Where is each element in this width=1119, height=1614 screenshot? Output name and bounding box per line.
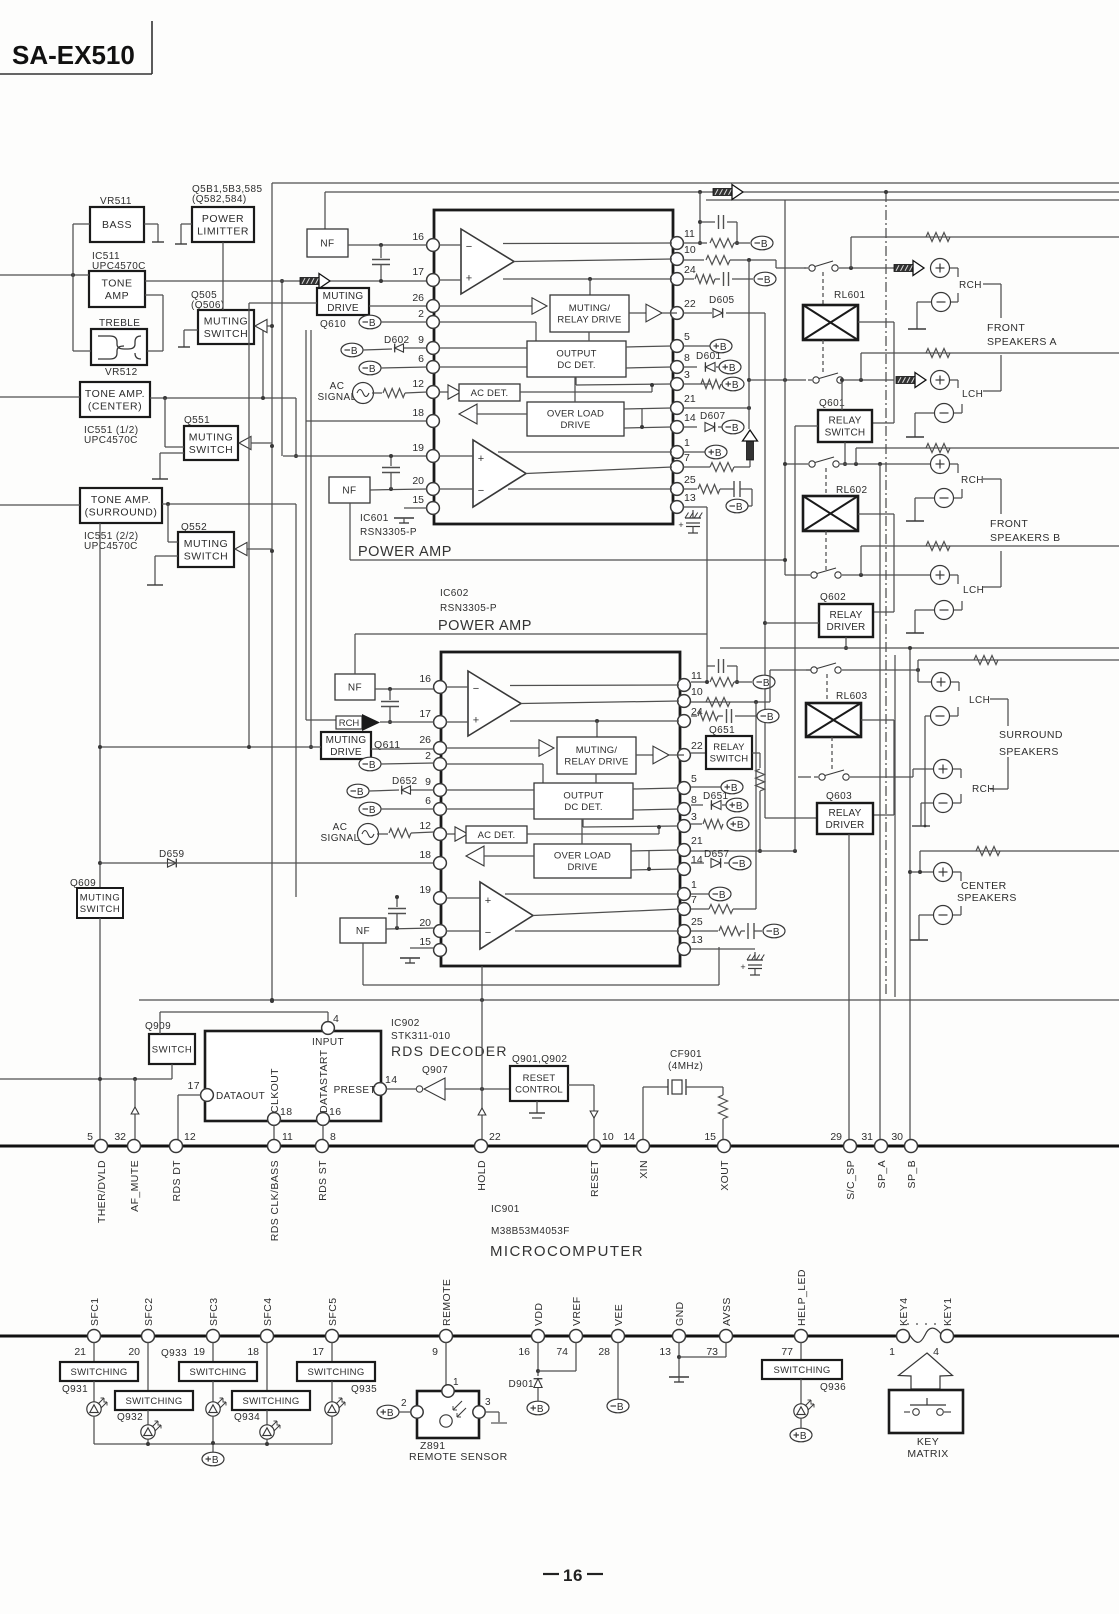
overload drive block [527, 402, 624, 436]
cap pin25 [733, 481, 735, 497]
wire led +B [212, 1443, 214, 1452]
rail 749 [748, 260, 750, 429]
wire pin24 602 [691, 715, 697, 717]
svg-text:SWITCH: SWITCH [710, 754, 749, 765]
triangle mute out [653, 746, 669, 764]
pin 24 IC602 [678, 715, 691, 728]
svg-text:8: 8 [691, 794, 697, 806]
svg-text:26: 26 [419, 734, 431, 746]
pin 21 IC602 [678, 844, 691, 857]
wire SFC2 drop [147, 1342, 149, 1391]
pin 16 IC602 [434, 681, 447, 694]
wire sw4 out [846, 574, 931, 576]
svg-text:8: 8 [684, 352, 690, 364]
wire Q602 stem [845, 637, 847, 648]
svg-text:NF: NF [320, 239, 334, 250]
pot VR512 TREBLE [91, 329, 147, 365]
wire dcdet out5 [633, 788, 678, 789]
wire ovl out21 [631, 850, 678, 851]
svg-text:M38B53M4053F: M38B53M4053F [491, 1226, 570, 1237]
svg-text:MATRIX: MATRIX [907, 1448, 948, 1460]
svg-text:SP_B: SP_B [906, 1160, 918, 1188]
wire limiter to Q505 [222, 242, 224, 310]
diode D602 [395, 344, 404, 352]
diode D607 [705, 423, 715, 432]
svg-text:15: 15 [419, 936, 431, 948]
svg-text:Q931: Q931 [62, 1384, 88, 1395]
svg-text:14: 14 [623, 1131, 635, 1143]
wire pin19 feed [283, 455, 434, 457]
wire pin20 in [446, 930, 480, 932]
svg-text:LCH: LCH [969, 695, 990, 706]
svg-text:CENTER: CENTER [961, 880, 1007, 892]
wire ovl link [574, 377, 576, 402]
svg-text:GND: GND [674, 1301, 686, 1326]
svg-text:12: 12 [419, 820, 431, 832]
svg-text:16: 16 [563, 1566, 583, 1585]
svg-text:POWER: POWER [202, 213, 244, 225]
node RDS ST pin 8 [316, 1140, 329, 1153]
wire opamp A to pin11 [510, 684, 679, 687]
wire opamp B to pin25 [515, 930, 679, 932]
svg-text:7: 7 [691, 894, 697, 906]
diode D657 [711, 859, 721, 868]
nf block IC602 top [335, 674, 375, 700]
pin 1 IC601 [671, 446, 684, 459]
wire D605 out [726, 312, 765, 314]
svg-text:+: + [678, 520, 683, 530]
wire Q552 gnd [155, 555, 178, 557]
bracket surround [990, 698, 1008, 700]
rail 306 to RCH tag [305, 330, 307, 714]
svg-text:SA-EX510: SA-EX510 [12, 40, 135, 70]
speaker - RCH A [932, 293, 951, 312]
svg-text:AC DET.: AC DET. [478, 830, 516, 841]
wire pin16 in [446, 686, 468, 688]
svg-text:SP_A: SP_A [876, 1160, 888, 1188]
svg-text:14: 14 [691, 854, 703, 866]
resistor LCH S [974, 656, 998, 665]
switch S1 [804, 267, 808, 269]
crystal CF901 [667, 1079, 669, 1095]
svg-text:15: 15 [704, 1131, 716, 1143]
wire NF to pin16 [348, 244, 427, 246]
wire opamp B to pin25 [508, 488, 672, 490]
pin 20 IC602 [434, 925, 447, 938]
svg-text:SWITCH: SWITCH [189, 444, 233, 456]
resistor pin24 [695, 275, 715, 284]
svg-text:Q651: Q651 [709, 725, 735, 736]
wire Q909 bottom [171, 1064, 173, 1079]
wire spkA LCH resistor line [860, 353, 862, 380]
svg-text:SIGNAL: SIGNAL [317, 392, 356, 403]
svg-text:Q935: Q935 [351, 1384, 377, 1395]
relay switch Q601 [818, 410, 872, 442]
wire pin3 602 [691, 823, 702, 825]
wire RL602 coil [858, 513, 894, 515]
wire pin6 in [439, 366, 527, 368]
resistor pin3 602 [703, 820, 723, 829]
node AVSS pin 73 [720, 1330, 733, 1343]
wire pin10 602 [691, 701, 770, 703]
wire pin16 in [439, 244, 461, 246]
resistor pin10 [706, 256, 730, 265]
svg-text:AF_MUTE: AF_MUTE [129, 1160, 141, 1212]
svg-text:RELAY DRIVE: RELAY DRIVE [557, 315, 621, 326]
wire GND [678, 1342, 680, 1377]
wire led common [93, 1416, 95, 1444]
output dc det block [527, 341, 626, 377]
relay RL602 [803, 496, 858, 531]
svg-text:D651: D651 [703, 791, 729, 802]
wire pin7 602 [691, 908, 709, 910]
dashed RL603-S6 [831, 737, 833, 771]
wire dcdet out5 [626, 346, 671, 347]
wire Q611 in [100, 746, 321, 748]
wire pin17 in [446, 721, 468, 723]
pin 8 IC601 [671, 361, 684, 374]
svg-text:10: 10 [602, 1131, 614, 1143]
svg-text:DRIVER: DRIVER [827, 622, 866, 633]
svg-text:5: 5 [684, 331, 690, 343]
wire bass branch [72, 224, 74, 351]
cap branch pin11 602 [707, 665, 715, 667]
resistor pin11 602 [710, 678, 734, 687]
svg-text:RDS DT: RDS DT [171, 1160, 183, 1202]
wire RL603 coil [861, 719, 894, 721]
wire pin24 [683, 278, 694, 280]
wire center to Q551 [164, 398, 166, 447]
svg-text:6: 6 [418, 353, 424, 365]
svg-text:+: + [473, 714, 479, 726]
wire RCH B term [950, 463, 958, 465]
dashed S1-RL601 [822, 272, 824, 305]
switching Q933 [179, 1362, 257, 1381]
svg-text:22: 22 [489, 1131, 501, 1143]
output dc det block [534, 783, 633, 819]
svg-text:INPUT: INPUT [312, 1037, 344, 1048]
pin 5 IC601 [671, 340, 684, 353]
svg-text:CF901: CF901 [670, 1049, 702, 1060]
wire NF to pin20 [370, 489, 427, 490]
wire NF602 top line [355, 633, 707, 635]
wire dcdet link [595, 774, 597, 783]
node REMOTE pin 9 [440, 1330, 453, 1343]
wire opamp A to pin24 [503, 278, 672, 280]
svg-text:NF: NF [342, 486, 356, 497]
oval -B pin14 IC601 [722, 420, 744, 434]
wire Q651 out [752, 752, 760, 754]
svg-text:17: 17 [188, 1080, 200, 1092]
svg-text:MUTING: MUTING [323, 291, 364, 302]
wire tone amp to pin17 [145, 280, 427, 282]
wire AVSS [725, 1342, 727, 1357]
gnd surround [912, 825, 930, 827]
pin 7 IC602 [678, 903, 691, 916]
svg-text:(4MHz): (4MHz) [668, 1061, 703, 1072]
diode D601 [705, 363, 715, 372]
switch S5 [806, 669, 810, 671]
reset control [510, 1066, 568, 1101]
svg-text:17: 17 [412, 266, 424, 278]
svg-text:B: B [773, 927, 780, 938]
svg-text:VREF: VREF [571, 1296, 583, 1326]
wire section divider [139, 999, 1119, 1001]
svg-text:19: 19 [419, 884, 431, 896]
wire dcdet out8 [633, 809, 678, 810]
wire NF602 bottom stem [362, 943, 364, 985]
pin 6 IC601 [427, 361, 440, 374]
led D935 [331, 1381, 333, 1402]
wire top bus B [325, 191, 1119, 193]
svg-text:16: 16 [419, 673, 431, 685]
svg-text:DRIVE: DRIVE [567, 862, 597, 873]
svg-text:3: 3 [684, 369, 690, 381]
svg-text:B: B [357, 787, 364, 798]
speaker - LCH S [931, 707, 950, 726]
resistor pin10 602 [706, 698, 730, 707]
wire SFC5 drop [331, 1342, 333, 1362]
svg-text:1: 1 [691, 879, 697, 891]
pin 1 IC602 [678, 888, 691, 901]
svg-text:22: 22 [684, 298, 696, 310]
muting drive Q611 [321, 732, 371, 759]
svg-text:14: 14 [385, 1074, 397, 1086]
wire Z891 gnd [485, 1411, 499, 1413]
svg-text:12: 12 [184, 1131, 196, 1143]
pin 25 IC602 [678, 925, 691, 938]
svg-text:15: 15 [412, 494, 424, 506]
dashed S3-RL602 [825, 468, 827, 496]
svg-text:B: B [763, 678, 770, 689]
wire opamp B to pin7 [533, 909, 679, 916]
switch S3 [804, 463, 808, 465]
wire center out [150, 397, 296, 399]
svg-text:LCH: LCH [962, 389, 983, 400]
wire opamp B to pin1 [498, 451, 672, 453]
diode D901 [534, 1379, 542, 1388]
wire CLKOUT [273, 1125, 275, 1146]
wire Q505 mute tie [254, 326, 256, 329]
svg-text:D652: D652 [392, 776, 418, 787]
wire center input [0, 396, 80, 398]
rail x895 [894, 655, 896, 997]
wire top bus A [272, 182, 1119, 184]
svg-text:18: 18 [419, 849, 431, 861]
muting relay drive block [550, 295, 629, 332]
svg-text:THER/DVLD: THER/DVLD [96, 1160, 108, 1223]
wavy bridge KEY4-KEY1 [909, 1328, 941, 1342]
svg-text:Q601: Q601 [819, 398, 845, 409]
svg-text:NF: NF [348, 683, 362, 694]
diode D605 [713, 309, 723, 318]
svg-text:Q551: Q551 [184, 415, 210, 426]
wire pin10 jog [775, 260, 777, 268]
speaker + RCH A [931, 259, 950, 278]
pin 10 IC601 [671, 253, 684, 266]
svg-text:SWITCHING: SWITCHING [125, 1396, 182, 1407]
node THER/DVLD pin 5 [95, 1140, 108, 1153]
node SFC4 pin 18 [261, 1330, 274, 1343]
pin 2 IC602 [434, 758, 447, 771]
wire Q551 mute tie [251, 442, 272, 444]
wire sw4 feed [785, 574, 806, 576]
svg-text:B: B [212, 1455, 219, 1466]
wire ac 602 [377, 833, 388, 835]
svg-text:(Q582,584): (Q582,584) [192, 194, 247, 205]
dashed RL601-S2 [822, 340, 824, 374]
wire NF602 feedback [363, 984, 719, 986]
svg-text:RL602: RL602 [836, 485, 868, 496]
wire Q601 stem [844, 442, 846, 464]
wire led936 [800, 1418, 802, 1428]
speaker + RCH B [931, 455, 950, 474]
oval +B pin8 IC602 [726, 798, 748, 812]
pin 18 CLKOUT [268, 1113, 281, 1126]
pin 3 Z891 [473, 1406, 485, 1418]
svg-text:−: − [478, 485, 484, 497]
svg-text:Q934: Q934 [234, 1412, 260, 1423]
pin 5 IC602 [678, 782, 691, 795]
rail 311 [310, 330, 312, 747]
svg-text:POWER AMP: POWER AMP [438, 618, 532, 634]
svg-text:5: 5 [87, 1131, 93, 1143]
svg-text:XOUT: XOUT [719, 1160, 731, 1191]
svg-text:13: 13 [684, 492, 696, 504]
svg-text:NF: NF [356, 926, 370, 937]
wire bass out [144, 223, 158, 225]
oval -B pin24 IC601 [754, 272, 776, 286]
wire NF601 bottom stem [349, 503, 351, 560]
wire pin26 in [439, 305, 532, 307]
svg-text:RSN3305-P: RSN3305-P [360, 527, 417, 538]
wire sw6 left stub [798, 776, 811, 778]
svg-text:17: 17 [419, 708, 431, 720]
pin 10 IC602 [678, 695, 691, 708]
wire pin21 [683, 407, 749, 409]
diode D651 [711, 801, 721, 810]
svg-text:20: 20 [128, 1346, 140, 1358]
pin 25 IC601 [671, 483, 684, 496]
node SP_B pin 30 [905, 1140, 918, 1153]
svg-text:21: 21 [74, 1346, 86, 1358]
svg-text:19: 19 [412, 442, 424, 454]
oval -B pin9 IC602 [347, 784, 369, 798]
svg-text:SFC2: SFC2 [143, 1298, 155, 1326]
cap pin16-17 [380, 245, 382, 258]
wire mute out [629, 312, 646, 314]
cap pin16-17 IC602 [389, 689, 391, 700]
wire pin19 in [446, 897, 480, 899]
resistor xout [719, 1095, 728, 1119]
wire pin14 [683, 426, 697, 428]
pin 11 IC601 [671, 237, 684, 250]
wire tone amp treble loop [145, 294, 163, 296]
svg-text:8: 8 [330, 1131, 336, 1143]
rail 785 speaker B feed [783, 378, 787, 382]
svg-text:MUTING: MUTING [189, 431, 233, 443]
relay driver Q602 [819, 604, 873, 637]
pin 14 PRESET [374, 1083, 387, 1096]
svg-text:B: B [369, 364, 376, 375]
pin 19 IC602 [434, 892, 447, 905]
svg-text:B: B [800, 1431, 807, 1442]
svg-text:D901: D901 [508, 1379, 534, 1390]
switching Q931 [60, 1362, 138, 1381]
svg-text:SURROUND: SURROUND [999, 729, 1063, 741]
photo detector [440, 1415, 452, 1427]
ac source IC601 [353, 383, 374, 404]
tag RCH [336, 716, 362, 729]
wire RCH tag to pin17 [380, 721, 434, 723]
svg-text:DC DET.: DC DET. [557, 360, 595, 371]
svg-text:SFC4: SFC4 [262, 1298, 274, 1326]
pin 20 IC601 [427, 483, 440, 496]
wire mute out [636, 754, 653, 756]
svg-text:B: B [369, 805, 376, 816]
ac det block [466, 826, 527, 843]
oval +B pin3 IC601 [722, 377, 744, 391]
svg-text:B: B [732, 423, 739, 434]
svg-text:B: B [732, 380, 739, 391]
wire VDD drop [537, 1342, 539, 1376]
wire pin5 602 [691, 786, 721, 788]
wire NF602 to pin16 [375, 688, 434, 690]
wire pin2 in [446, 763, 543, 765]
ac source IC602 [358, 824, 379, 845]
svg-text:RSN3305-P: RSN3305-P [440, 603, 497, 614]
IC601 outline [434, 210, 673, 524]
svg-text:RCH: RCH [959, 280, 982, 291]
triangle at Q552 [235, 542, 247, 555]
svg-text:DRIVE: DRIVE [560, 420, 590, 431]
pin 17 DATAOUT [201, 1089, 214, 1102]
wire opamp B to pin1 [505, 893, 679, 895]
svg-text:B: B [767, 712, 774, 723]
svg-text:B: B [387, 1408, 394, 1419]
wire ovl out21 [624, 408, 671, 409]
svg-text:SWITCH: SWITCH [152, 1044, 192, 1055]
svg-text:B: B [737, 820, 744, 831]
svg-text:RESET: RESET [523, 1073, 556, 1084]
wire -LCH B gnd [915, 609, 934, 611]
svg-text:20: 20 [419, 917, 431, 929]
svg-text:77: 77 [781, 1346, 793, 1358]
svg-text:(CENTER): (CENTER) [88, 400, 142, 412]
svg-text:26: 26 [412, 292, 424, 304]
muting switch Q551 [184, 426, 238, 460]
wire center term [953, 871, 961, 873]
wire pin9 in [446, 789, 534, 791]
wire Q603 stem [848, 834, 850, 1146]
triangle mute in [539, 740, 554, 757]
svg-text:REMOTE: REMOTE [441, 1279, 453, 1326]
svg-text:B: B [369, 318, 376, 329]
svg-text:Q610: Q610 [320, 319, 346, 330]
svg-text:VEE: VEE [613, 1304, 625, 1326]
rail D605 to Q602 Q603 [764, 313, 766, 818]
speaker - center [934, 906, 953, 925]
resistor RCH B [926, 444, 950, 453]
wire pin14 602 [691, 862, 704, 864]
gnd reset [536, 1101, 538, 1113]
switch Q909 [149, 1034, 195, 1064]
svg-text:TREBLE: TREBLE [99, 318, 140, 329]
wire acdet out [527, 833, 659, 835]
svg-text:UPC4570C: UPC4570C [84, 541, 138, 552]
svg-text:MUTING: MUTING [204, 315, 248, 327]
svg-text:9: 9 [432, 1346, 438, 1358]
